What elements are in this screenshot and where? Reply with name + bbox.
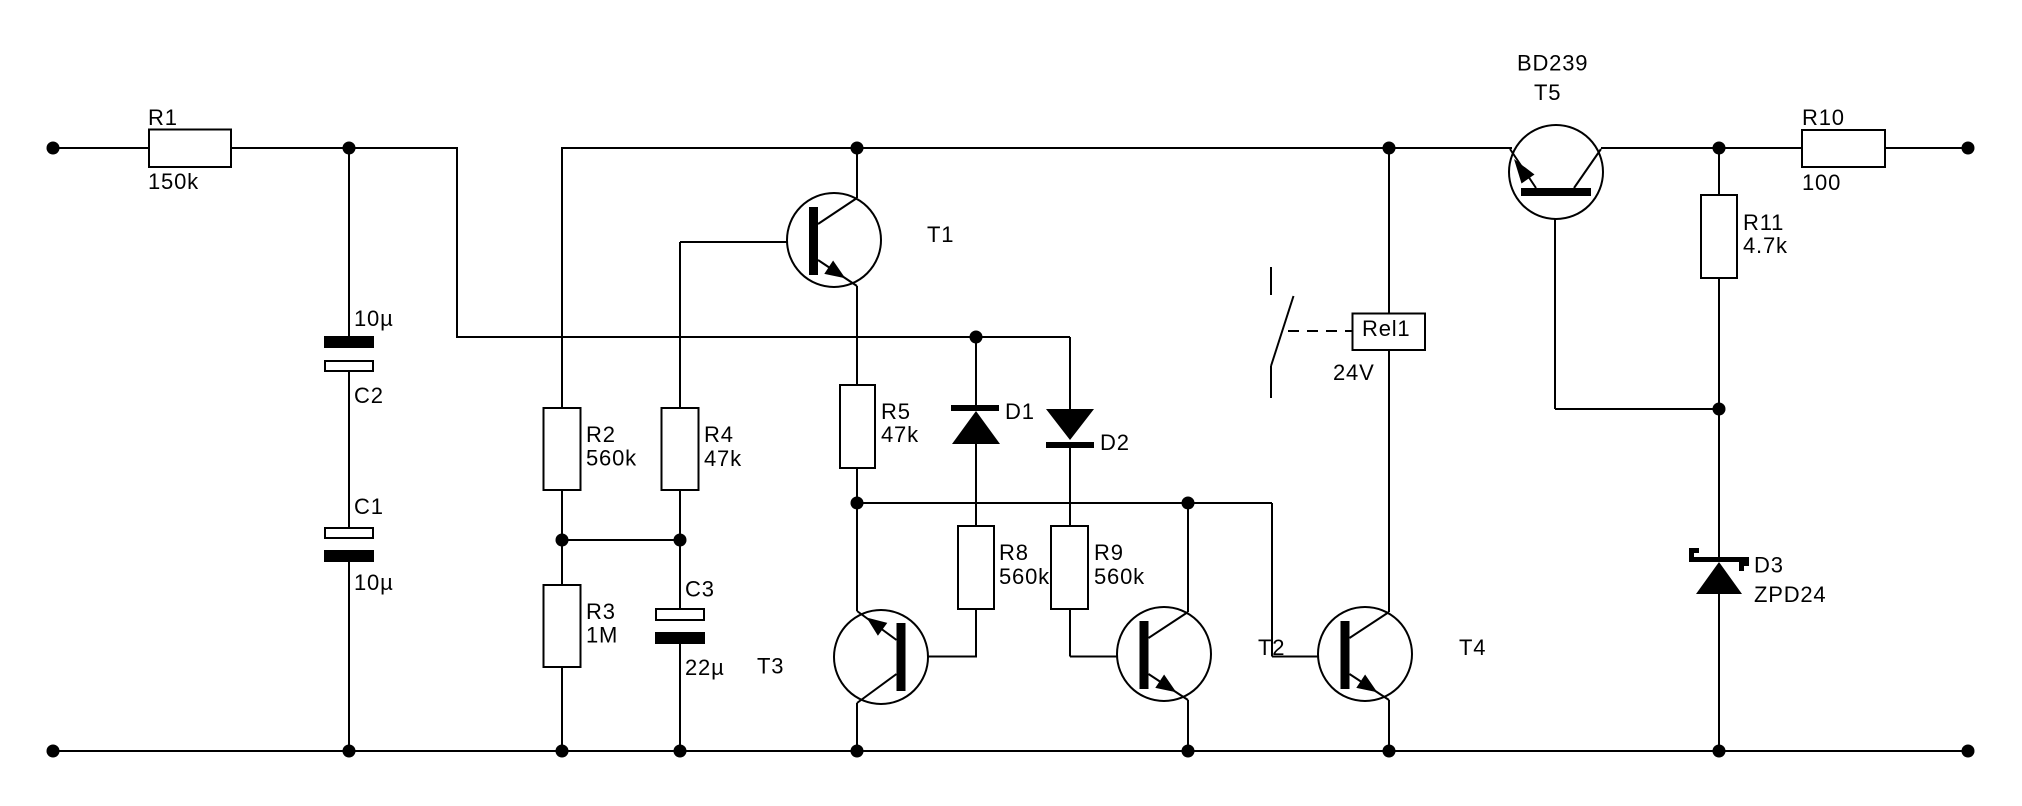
resistor R4 (47k): [662, 408, 699, 490]
transistor T3: emitter lead (top): [857, 611, 897, 640]
terminal input top-left: [47, 142, 60, 155]
wire C3 bottom lead to rail: [679, 643, 681, 751]
wire D1 top lead: [975, 337, 977, 405]
wire R10 to output terminal: [1885, 147, 1968, 149]
capacitor C3 (22u polarized): outlined plate: [656, 609, 704, 620]
node junction D3 on rail: [1713, 745, 1726, 758]
wire bottom rail: [53, 750, 1968, 752]
capacitor C3: filled plate: [655, 632, 705, 644]
terminal bottom-left: [47, 745, 60, 758]
relay actuation dashed link: [1288, 330, 1352, 332]
svg-text:D2: D2: [1100, 430, 1130, 455]
node junction C1 on rail: [343, 745, 356, 758]
wire C2 top lead: [348, 148, 350, 338]
transistor T4: emitter lead: [1350, 674, 1390, 700]
wire bus corner down to T4 base: [1271, 503, 1273, 657]
node junction T2 emitter on rail: [1182, 745, 1195, 758]
wire R5 bottom lead: [856, 468, 858, 503]
svg-text:R11: R11: [1743, 210, 1784, 235]
svg-text:R1: R1: [148, 105, 178, 130]
wire R3 bottom lead to rail: [561, 667, 563, 751]
transistor T5: emitter lead (left, to rail): [1510, 149, 1536, 188]
resistor R10 (100): [1802, 130, 1885, 167]
node junction T5 base / R11 / D3: [1713, 403, 1726, 416]
wire branch down at x457: [456, 147, 458, 337]
svg-text:4.7k: 4.7k: [1743, 233, 1788, 258]
resistor R5 (47k): [840, 385, 875, 468]
resistor R8 (560k): [958, 526, 994, 609]
svg-text:C2: C2: [354, 383, 384, 408]
node junction R4/C3: [674, 534, 687, 547]
wire T2 base horizontal: [1070, 656, 1140, 658]
transistor T3: body circle: [834, 610, 928, 704]
wire D3 bottom lead to rail: [1718, 594, 1720, 751]
transistor T5 (BD239): body circle: [1509, 125, 1603, 219]
svg-text:R2: R2: [586, 422, 616, 447]
svg-text:150k: 150k: [148, 169, 199, 194]
transistor T1: emitter arrow: [824, 261, 845, 279]
wire R8 bottom to T3 base drop: [975, 609, 977, 657]
node junction R2/R3: [556, 534, 569, 547]
svg-text:24V: 24V: [1333, 360, 1375, 385]
svg-text:R9: R9: [1094, 540, 1124, 565]
transistor T4: base bar: [1341, 621, 1350, 689]
resistor R2 (560k): [544, 408, 581, 490]
transistor T4: emitter arrow: [1356, 675, 1377, 693]
relay contact switch: blade: [1271, 296, 1294, 366]
wire T1 emitter to R5: [856, 286, 858, 385]
diode D2: cathode bar: [1046, 442, 1094, 448]
svg-text:560k: 560k: [999, 564, 1050, 589]
wire Rel1 top lead from rail: [1388, 148, 1390, 313]
terminal output top-right: [1962, 142, 1975, 155]
transistor T3: collector lead (bottom): [857, 674, 897, 703]
wire C2 to C1: [348, 372, 350, 529]
svg-text:R3: R3: [586, 599, 616, 624]
transistor T1: emitter lead: [818, 260, 857, 286]
wire R9 bottom to T2 base drop: [1069, 609, 1071, 657]
node junction R5 / T3 emitter / bus: [851, 497, 864, 510]
wire T2 collector up to bus: [1187, 503, 1189, 612]
node junction Rel1 on rail: [1383, 142, 1396, 155]
wire R11 top lead: [1718, 148, 1720, 195]
resistor R1 (150k): [149, 130, 231, 168]
svg-text:T1: T1: [927, 222, 954, 247]
transistor T4: collector lead: [1350, 612, 1390, 638]
svg-text:560k: 560k: [586, 446, 637, 471]
wire R11 bottom lead to node: [1718, 278, 1720, 409]
node junction T2 collector on bus: [1182, 497, 1195, 510]
wire Rel1 bottom to T4 collector: [1388, 350, 1390, 612]
svg-text:ZPD24: ZPD24: [1754, 582, 1826, 607]
wire C3 top lead: [679, 540, 681, 610]
wire R2 top lead down from rail: [561, 147, 563, 408]
transistor T5: emitter arrow: [1514, 159, 1535, 184]
wire T4 emitter down to rail: [1388, 700, 1390, 751]
svg-text:C3: C3: [685, 577, 715, 602]
svg-text:R5: R5: [881, 399, 911, 424]
resistor R3 (1M): [544, 585, 581, 667]
svg-text:R4: R4: [704, 422, 734, 447]
transistor T2: emitter lead: [1149, 674, 1189, 700]
diode D1: cathode bar: [951, 405, 999, 411]
svg-text:C1: C1: [354, 494, 384, 519]
node junction D1 top: [970, 331, 983, 344]
capacitor C2: outlined plate: [325, 361, 373, 371]
wire T1 collector from rail: [856, 148, 858, 198]
svg-text:100: 100: [1802, 170, 1841, 195]
node junction R1 / C2 branch: [343, 142, 356, 155]
wire T5 base horizontal to zener node: [1555, 408, 1719, 410]
svg-text:T2: T2: [1258, 635, 1285, 660]
svg-text:560k: 560k: [1094, 564, 1145, 589]
node junction R3 on rail: [556, 745, 569, 758]
node junction C3 on rail: [674, 745, 687, 758]
wire R2 bottom lead: [561, 490, 563, 540]
wire D2 cathode to R9: [1069, 447, 1071, 526]
wire R3 top lead: [561, 540, 563, 585]
wire D2 top lead: [1069, 337, 1071, 409]
diode D2: anode triangle pointing down: [1046, 409, 1094, 440]
transistor T2: body circle: [1117, 607, 1211, 701]
wire D3 top lead: [1718, 409, 1720, 557]
diode D1: anode triangle pointing up: [952, 411, 1000, 444]
wire horizontal feed to D1/D2 at y337: [456, 336, 1070, 338]
relay contact switch: upper stub: [1270, 267, 1272, 295]
node junction T3 collector on rail: [851, 745, 864, 758]
svg-text:10µ: 10µ: [354, 570, 394, 595]
resistor R11 (4.7k): [1701, 195, 1737, 278]
svg-text:R8: R8: [999, 540, 1029, 565]
svg-text:47k: 47k: [704, 446, 742, 471]
zener diode D3 (ZPD24): cathode bar with hooks: [1689, 548, 1749, 571]
wire C1 to bottom rail: [348, 560, 350, 751]
wire T3 collector down to rail: [856, 703, 858, 751]
terminal bottom-right: [1962, 745, 1975, 758]
resistor R9 (560k): [1051, 526, 1088, 609]
wire top rail: R1 to corner x457: [231, 147, 457, 149]
svg-text:1M: 1M: [586, 623, 618, 648]
capacitor C2 (10u polarized): filled plate: [324, 336, 374, 348]
wire R4 bottom lead: [679, 490, 681, 540]
wire T1 base: [680, 241, 809, 243]
transistor T5: base bar (horizontal): [1521, 188, 1591, 196]
wire bus y=503: [857, 502, 1272, 504]
transistor T3: emitter arrow: [867, 618, 888, 636]
zener diode D3: anode triangle pointing up: [1696, 562, 1742, 594]
transistor T1: base bar: [809, 207, 818, 275]
svg-text:T3: T3: [757, 654, 784, 679]
svg-text:T4: T4: [1459, 635, 1486, 660]
wire top rail: terminal to R1: [53, 147, 149, 149]
wire T1 base corner down to R4: [679, 242, 681, 408]
wire T3 base horizontal: [906, 656, 978, 658]
svg-text:T5: T5: [1534, 80, 1561, 105]
wire D1 anode to R8: [975, 444, 977, 526]
wire T4 base: [1272, 656, 1341, 658]
wire top rail right section (R2 corner to T5): [562, 147, 1512, 149]
transistor T4: body circle: [1318, 607, 1412, 701]
wire top rail: T5 to R11 node: [1601, 147, 1802, 149]
transistor T1: body circle: [787, 193, 881, 287]
node junction T4 emitter on rail: [1383, 745, 1396, 758]
transistor T1: collector lead: [818, 198, 857, 224]
svg-text:22µ: 22µ: [685, 655, 725, 680]
transistor T3: base bar: [897, 623, 906, 691]
wire T3 emitter up to bus: [856, 503, 858, 611]
svg-text:R10: R10: [1802, 105, 1845, 130]
svg-text:47k: 47k: [881, 422, 919, 447]
wire junction R2 to R4: [562, 539, 680, 541]
capacitor C1: filled plate: [324, 550, 374, 562]
capacitor C1 (10u polarized): outlined plate: [325, 528, 373, 538]
wire T2 emitter down to rail: [1187, 700, 1189, 751]
relay contact switch: lower stub: [1270, 366, 1272, 398]
transistor T2: base bar: [1140, 621, 1149, 689]
node junction R11 on rail: [1713, 142, 1726, 155]
svg-text:BD239: BD239: [1517, 51, 1588, 76]
relay coil Rel1 box: [1353, 314, 1426, 351]
wire T5 base down: [1554, 196, 1556, 409]
svg-text:D1: D1: [1005, 399, 1035, 424]
transistor T2: emitter arrow: [1155, 675, 1176, 693]
svg-text:Rel1: Rel1: [1362, 316, 1410, 341]
transistor T5: collector lead (right, to rail): [1574, 149, 1601, 188]
svg-text:D3: D3: [1754, 553, 1784, 578]
svg-text:10µ: 10µ: [354, 306, 394, 331]
node junction T1 collector on rail: [851, 142, 864, 155]
transistor T2: collector lead: [1149, 612, 1189, 638]
